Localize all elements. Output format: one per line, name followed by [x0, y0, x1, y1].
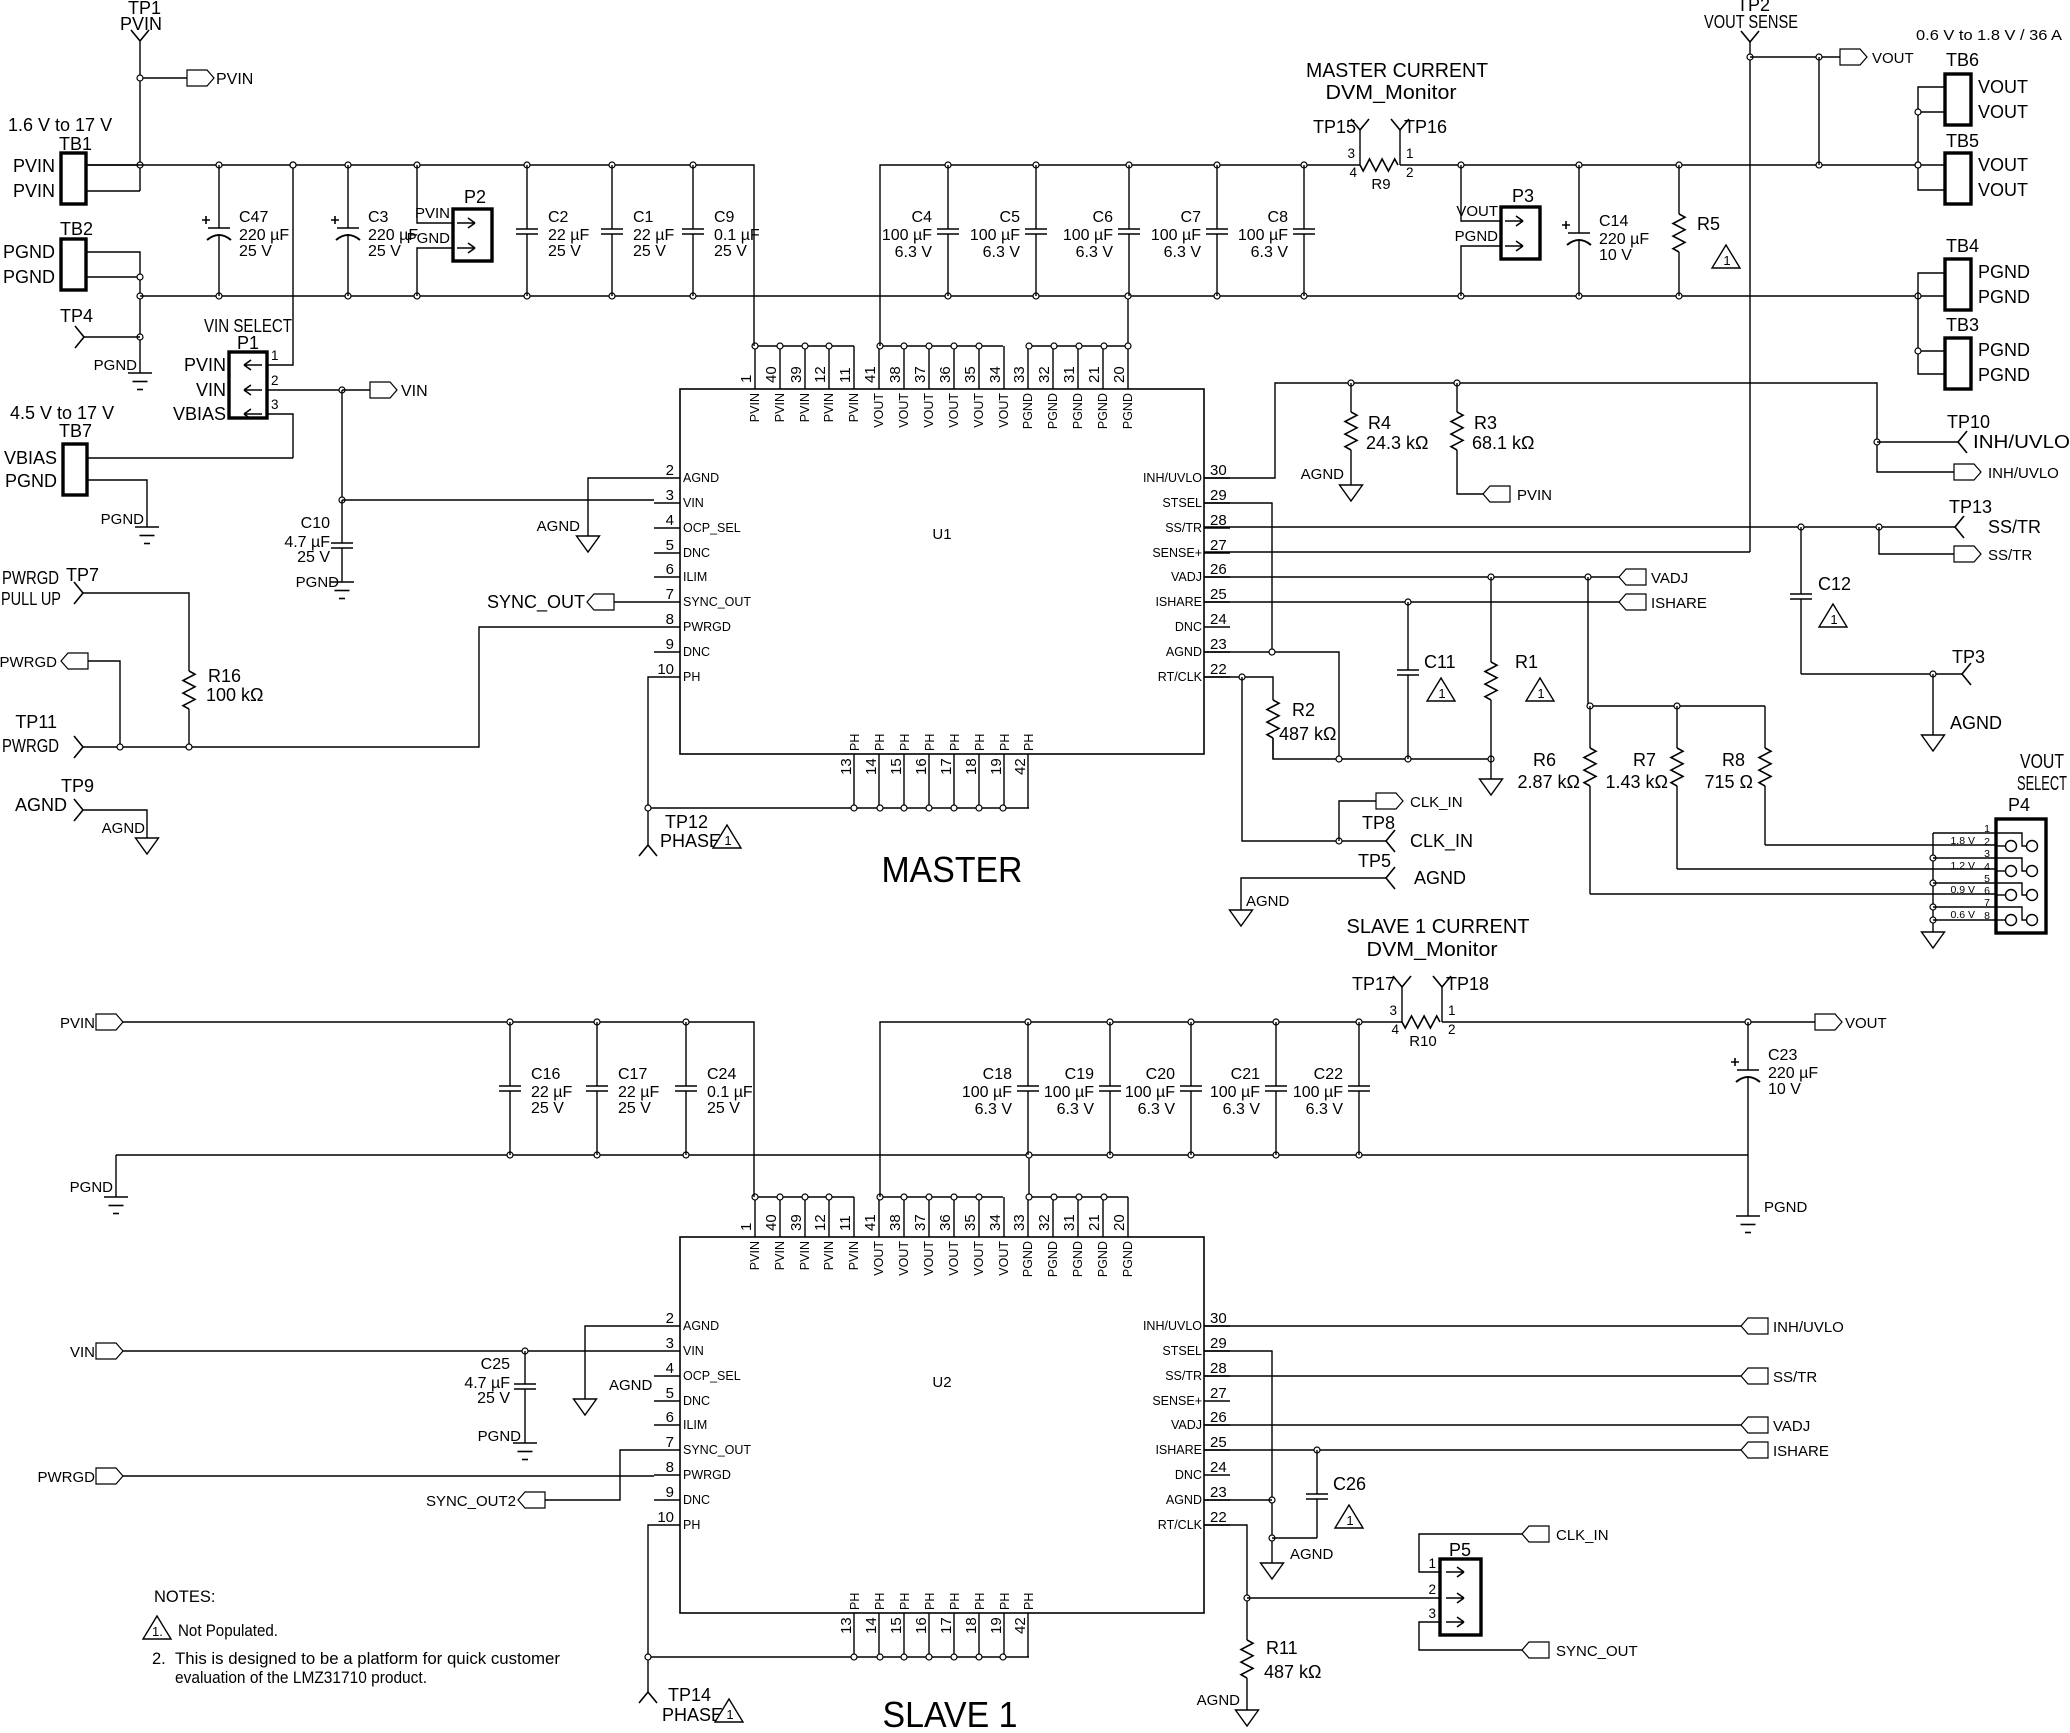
- U1 pin 34 VOUT: [1003, 346, 1005, 389]
- svg-text:29: 29: [1210, 487, 1227, 504]
- svg-text:25 V: 25 V: [707, 1100, 740, 1117]
- svg-text:41: 41: [862, 366, 879, 383]
- svg-text:1.43 kΩ: 1.43 kΩ: [1606, 772, 1669, 792]
- svg-text:C7: C7: [1181, 209, 1202, 226]
- svg-text:R11: R11: [1266, 1638, 1298, 1658]
- wire U1 VIN pin3: [342, 499, 654, 501]
- svg-text:16: 16: [913, 758, 930, 775]
- svg-text:22 µF: 22 µF: [548, 227, 589, 244]
- svg-text:VOUT: VOUT: [872, 393, 886, 428]
- svg-text:487 kΩ: 487 kΩ: [1279, 724, 1337, 744]
- wire P4 pin8 from ground bus: [1933, 919, 1996, 921]
- svg-text:2: 2: [1406, 165, 1414, 180]
- svg-text:VADJ: VADJ: [1773, 1418, 1810, 1435]
- svg-text:PH: PH: [1022, 1593, 1036, 1610]
- svg-text:1: 1: [271, 348, 279, 363]
- svg-text:U1: U1: [932, 526, 951, 543]
- svg-text:39: 39: [788, 1214, 805, 1231]
- svg-text:PGND: PGND: [407, 230, 451, 247]
- U2 pin 13 PH: [853, 1613, 855, 1657]
- wire VOUT pin bus (U1): [880, 345, 1003, 347]
- wire VADJ (slave): [1204, 1424, 1741, 1426]
- svg-text:MASTER: MASTER: [882, 849, 1023, 890]
- wire TB7 PGND: [87, 480, 147, 527]
- svg-text:0.6 V to 1.8 V / 36 A: 0.6 V to 1.8 V / 36 A: [1916, 27, 2062, 44]
- svg-text:VOUT: VOUT: [972, 393, 986, 428]
- svg-text:AGND: AGND: [1290, 1546, 1334, 1563]
- resistor R6: [1589, 706, 1591, 748]
- U2 pin 33 PGND: [1027, 1197, 1029, 1237]
- capacitor C17: [596, 1022, 598, 1086]
- svg-text:19: 19: [988, 1617, 1005, 1634]
- capacitor C7: [1216, 165, 1218, 229]
- svg-text:22: 22: [1210, 1509, 1227, 1526]
- U2 pin 15 PH: [903, 1613, 905, 1657]
- U2 pin 5 DNC: [654, 1400, 680, 1402]
- svg-text:TB4: TB4: [1946, 236, 1979, 256]
- svg-text:PH: PH: [998, 734, 1012, 751]
- capacitor C21: [1275, 1022, 1277, 1086]
- svg-text:6.3 V: 6.3 V: [1164, 244, 1202, 261]
- U2 pin 23 AGND: [1204, 1499, 1230, 1501]
- svg-text:25: 25: [1210, 586, 1227, 603]
- capacitor C14: [1578, 165, 1580, 233]
- U1 pin 16 PH: [928, 754, 930, 808]
- wire SS/TR net: [1204, 526, 1955, 528]
- svg-text:PGND: PGND: [1978, 365, 2030, 385]
- svg-text:PGND: PGND: [1121, 1241, 1135, 1277]
- resistor R4: [1350, 383, 1352, 412]
- svg-text:TP4: TP4: [60, 306, 93, 326]
- svg-text:40: 40: [763, 1214, 780, 1231]
- svg-text:VOUT: VOUT: [2020, 750, 2064, 773]
- svg-text:9: 9: [666, 1484, 674, 1501]
- svg-text:PWRGD: PWRGD: [38, 1469, 96, 1486]
- svg-text:PVIN: PVIN: [847, 1241, 861, 1270]
- wire P3 PGND: [1461, 246, 1501, 296]
- wire C12 to TP3: [1801, 673, 1962, 675]
- svg-text:OCP_SEL: OCP_SEL: [683, 1369, 741, 1383]
- svg-text:31: 31: [1061, 1214, 1078, 1231]
- svg-text:1: 1: [1406, 146, 1414, 161]
- svg-text:24: 24: [1210, 611, 1227, 628]
- test point TP10 INH/UVLO: [1877, 441, 1958, 443]
- U2 pin 34 VOUT: [1003, 1197, 1005, 1237]
- svg-text:DNC: DNC: [683, 645, 710, 659]
- svg-text:1: 1: [1438, 686, 1445, 701]
- wire R7 to P4 pin4: [1677, 868, 1996, 870]
- wire CLK_IN net: [1242, 677, 1386, 841]
- svg-text:PVIN: PVIN: [120, 14, 162, 34]
- svg-text:100 µF: 100 µF: [1151, 227, 1201, 244]
- svg-text:220 µF: 220 µF: [1768, 1065, 1818, 1082]
- svg-text:SYNC_OUT: SYNC_OUT: [1556, 1643, 1638, 1660]
- svg-text:26: 26: [1210, 1409, 1227, 1426]
- svg-text:3: 3: [1984, 848, 1990, 860]
- svg-text:CLK_IN: CLK_IN: [1410, 794, 1463, 811]
- U2 pin 42 PH: [1027, 1613, 1029, 1657]
- svg-text:CLK_IN: CLK_IN: [1410, 831, 1473, 852]
- svg-text:SS/TR: SS/TR: [1165, 1369, 1202, 1383]
- net flag CLK_IN: [1339, 801, 1376, 841]
- test point TP8 CLK_IN: [1386, 830, 1395, 852]
- svg-text:35: 35: [962, 366, 979, 383]
- svg-text:AGND: AGND: [683, 1319, 719, 1333]
- svg-text:VIN: VIN: [70, 1344, 95, 1361]
- svg-text:PGND: PGND: [101, 511, 145, 528]
- net flag VOUT (top right): [1750, 56, 1840, 58]
- svg-text:PVIN: PVIN: [13, 156, 55, 176]
- svg-text:1: 1: [1428, 1556, 1436, 1571]
- U2 pin 36 VOUT: [953, 1197, 955, 1237]
- svg-text:C4: C4: [912, 209, 933, 226]
- U2 pin 16 PH: [928, 1613, 930, 1657]
- svg-text:C26: C26: [1333, 1474, 1366, 1494]
- svg-text:SS/TR: SS/TR: [1988, 517, 2041, 537]
- svg-text:VOUT: VOUT: [922, 393, 936, 428]
- svg-text:100 µF: 100 µF: [1293, 1084, 1343, 1101]
- wire P2 PVIN: [417, 165, 453, 223]
- U1 pin 40 PVIN: [779, 346, 781, 389]
- wire PVIN pin bus (U1): [754, 345, 854, 347]
- svg-text:C16: C16: [531, 1066, 560, 1083]
- svg-text:68.1 kΩ: 68.1 kΩ: [1472, 433, 1535, 453]
- svg-text:VBIAS: VBIAS: [4, 448, 57, 468]
- net flag SYNC_OUT (slave): [1522, 1642, 1549, 1658]
- U2 pin 37 VOUT: [928, 1197, 930, 1237]
- wire SENSE net: [1204, 551, 1750, 553]
- resistor R8: [1764, 706, 1766, 748]
- U1 pin 21 PGND: [1102, 346, 1104, 389]
- U1 pin 22 RT/CLK: [1204, 676, 1230, 678]
- wire PH bus (U2): [648, 1525, 654, 1692]
- svg-text:34: 34: [987, 1214, 1004, 1231]
- wire U2 AGND pin2: [585, 1326, 654, 1399]
- svg-text:4: 4: [1984, 861, 1990, 873]
- svg-text:1.6 V to 17 V: 1.6 V to 17 V: [8, 115, 112, 135]
- svg-text:100 µF: 100 µF: [962, 1084, 1012, 1101]
- svg-text:7: 7: [1984, 897, 1990, 909]
- svg-text:ILIM: ILIM: [683, 570, 707, 584]
- svg-text:AGND: AGND: [15, 795, 67, 815]
- svg-text:25 V: 25 V: [531, 1100, 564, 1117]
- svg-text:R3: R3: [1474, 413, 1497, 433]
- wire PGND rail: [140, 295, 1945, 297]
- svg-text:25 V: 25 V: [297, 549, 330, 566]
- U1 pin 7 SYNC_OUT: [654, 601, 680, 603]
- P4 pin 6: [1996, 894, 2006, 896]
- svg-text:DNC: DNC: [683, 546, 710, 560]
- svg-text:24.3 kΩ: 24.3 kΩ: [1366, 433, 1429, 453]
- svg-text:20: 20: [1111, 1214, 1128, 1231]
- svg-text:37: 37: [912, 366, 929, 383]
- capacitor C1: [611, 165, 613, 229]
- net flag CLK_IN (slave): [1522, 1526, 1549, 1542]
- svg-text:PH: PH: [973, 734, 987, 751]
- svg-text:VOUT: VOUT: [872, 1241, 886, 1276]
- svg-text:AGND: AGND: [1166, 1493, 1202, 1507]
- svg-text:1: 1: [1537, 686, 1544, 701]
- U2 pin 24 DNC: [1204, 1474, 1230, 1476]
- svg-text:TP17: TP17: [1352, 974, 1395, 994]
- U2 pin 7 SYNC_OUT: [654, 1449, 680, 1451]
- svg-text:VOUT: VOUT: [1978, 77, 2028, 97]
- svg-text:INH/UVLO: INH/UVLO: [1773, 1319, 1844, 1336]
- svg-text:OCP_SEL: OCP_SEL: [683, 521, 741, 535]
- svg-text:35: 35: [962, 1214, 979, 1231]
- svg-text:VIN: VIN: [683, 496, 704, 510]
- ground AGND (bus): [1490, 759, 1492, 779]
- svg-text:0.1 µF: 0.1 µF: [714, 227, 760, 244]
- svg-text:1.: 1.: [152, 1624, 163, 1639]
- svg-text:SLAVE 1 CURRENT: SLAVE 1 CURRENT: [1347, 915, 1530, 938]
- wire PGND rail (slave): [116, 1154, 1748, 1156]
- svg-text:VOUT: VOUT: [997, 393, 1011, 428]
- svg-text:100 µF: 100 µF: [1238, 227, 1288, 244]
- wire U1 AGND pin2: [588, 478, 654, 536]
- svg-text:26: 26: [1210, 561, 1227, 578]
- svg-text:487 kΩ: 487 kΩ: [1264, 1662, 1322, 1682]
- P4 pin 2: [1996, 845, 2006, 847]
- svg-text:TB3: TB3: [1946, 315, 1979, 335]
- svg-text:C1: C1: [633, 209, 654, 226]
- U2 pin 8 PWRGD: [654, 1474, 680, 1476]
- U1 pin 39 PVIN: [804, 346, 806, 389]
- svg-text:PVIN: PVIN: [798, 393, 812, 422]
- svg-text:SS/TR: SS/TR: [1773, 1369, 1817, 1386]
- svg-text:PGND: PGND: [1764, 1199, 1808, 1216]
- svg-text:25 V: 25 V: [618, 1100, 651, 1117]
- capacitor C47: [218, 165, 220, 228]
- svg-text:PGND: PGND: [1121, 393, 1135, 429]
- svg-text:TP7: TP7: [66, 565, 99, 585]
- U2 pin 12 PVIN: [828, 1197, 830, 1237]
- P4 pin 4: [1996, 870, 2006, 872]
- net flag INH/UVLO: [1954, 464, 1981, 480]
- svg-text:6.3 V: 6.3 V: [1306, 1101, 1344, 1118]
- wire STSEL net (slave): [1204, 1351, 1272, 1563]
- svg-text:6: 6: [1984, 885, 1990, 897]
- U1 pin 13 PH: [853, 754, 855, 808]
- svg-text:PGND: PGND: [1021, 393, 1035, 429]
- ground PGND (C23): [1747, 1155, 1749, 1216]
- svg-text:25 V: 25 V: [239, 243, 272, 260]
- svg-text:PH: PH: [898, 734, 912, 751]
- svg-text:PH: PH: [923, 734, 937, 751]
- svg-text:7: 7: [666, 586, 674, 603]
- svg-text:39: 39: [788, 366, 805, 383]
- svg-text:U2: U2: [932, 1374, 951, 1391]
- svg-text:NOTES:: NOTES:: [154, 1588, 215, 1606]
- svg-text:R16: R16: [208, 666, 241, 686]
- svg-text:TB2: TB2: [60, 219, 93, 239]
- svg-text:VOUT: VOUT: [1978, 155, 2028, 175]
- svg-text:VADJ: VADJ: [1651, 570, 1688, 587]
- svg-text:6: 6: [666, 561, 674, 578]
- net flag VOUT (slave): [1815, 1014, 1842, 1030]
- svg-text:C12: C12: [1818, 574, 1851, 594]
- svg-text:TP13: TP13: [1949, 497, 1992, 517]
- svg-text:PVIN: PVIN: [60, 1015, 95, 1032]
- net flag VIN: [342, 389, 370, 391]
- svg-text:INH/UVLO: INH/UVLO: [1988, 465, 2059, 482]
- svg-text:33: 33: [1011, 366, 1028, 383]
- resistor R7: [1676, 706, 1678, 748]
- svg-text:VOUT: VOUT: [897, 1241, 911, 1276]
- svg-text:13: 13: [838, 758, 855, 775]
- U1 pin 18 PH: [978, 754, 980, 808]
- svg-text:This is designed to be a platf: This is designed to be a platform for qu…: [175, 1650, 561, 1668]
- net flag VADJ: [1619, 569, 1646, 585]
- svg-text:2: 2: [1984, 836, 1990, 848]
- svg-text:TP14: TP14: [668, 1685, 711, 1705]
- svg-text:1: 1: [724, 833, 731, 848]
- svg-text:18: 18: [963, 1617, 980, 1634]
- svg-text:4: 4: [666, 512, 674, 529]
- svg-text:VOUT: VOUT: [922, 1241, 936, 1276]
- svg-text:PVIN: PVIN: [748, 1241, 762, 1270]
- svg-text:SYNC_OUT2: SYNC_OUT2: [426, 1493, 516, 1510]
- svg-text:22 µF: 22 µF: [633, 227, 674, 244]
- U2 pin 11 PVIN: [853, 1197, 855, 1237]
- svg-text:27: 27: [1210, 1385, 1227, 1402]
- U1 pin 14 PH: [878, 754, 880, 808]
- svg-text:1: 1: [738, 375, 755, 383]
- svg-text:R5: R5: [1697, 214, 1720, 234]
- svg-text:23: 23: [1210, 636, 1227, 653]
- svg-text:100 µF: 100 µF: [1044, 1084, 1094, 1101]
- resistor R16: [188, 669, 190, 671]
- svg-text:3: 3: [1428, 1606, 1436, 1621]
- wire R6 to P4 pin6: [1590, 893, 1996, 895]
- svg-text:220 µF: 220 µF: [239, 227, 289, 244]
- U1 pin 37 VOUT: [928, 346, 930, 389]
- svg-text:18: 18: [963, 758, 980, 775]
- svg-text:PGND: PGND: [1978, 262, 2030, 282]
- svg-text:C21: C21: [1231, 1066, 1260, 1083]
- svg-text:R1: R1: [1515, 652, 1538, 672]
- svg-text:SLAVE 1: SLAVE 1: [883, 1694, 1018, 1733]
- svg-text:TP3: TP3: [1952, 647, 1985, 667]
- svg-text:3: 3: [666, 1335, 674, 1352]
- U1 pin 28 SS/TR: [1204, 527, 1230, 529]
- svg-text:PGND: PGND: [1071, 393, 1085, 429]
- svg-text:SYNC_OUT: SYNC_OUT: [487, 592, 585, 613]
- svg-text:ISHARE: ISHARE: [1651, 595, 1707, 612]
- wire P4 ground bus: [1932, 833, 1934, 932]
- svg-text:C23: C23: [1768, 1047, 1797, 1064]
- U1 pin 20 PGND: [1127, 346, 1129, 389]
- svg-text:R7: R7: [1633, 750, 1656, 770]
- svg-text:10 V: 10 V: [1599, 247, 1632, 264]
- svg-text:PGND: PGND: [94, 357, 138, 374]
- svg-text:5: 5: [666, 537, 674, 554]
- svg-text:1: 1: [1830, 612, 1837, 627]
- wire VADJ net: [1204, 576, 1619, 578]
- wire P1 pin2 VIN: [267, 389, 342, 391]
- capacitor C4: [947, 165, 949, 229]
- svg-text:21: 21: [1086, 1214, 1103, 1231]
- svg-text:VIN: VIN: [683, 1344, 704, 1358]
- wire TB2 pin1: [86, 252, 140, 373]
- svg-text:RT/CLK: RT/CLK: [1158, 670, 1203, 684]
- svg-text:AGND: AGND: [1950, 713, 2002, 733]
- svg-text:SYNC_OUT: SYNC_OUT: [683, 595, 751, 609]
- svg-text:VIN: VIN: [196, 380, 226, 400]
- svg-text:INH/UVLO: INH/UVLO: [1143, 1319, 1202, 1333]
- svg-text:100 kΩ: 100 kΩ: [206, 685, 264, 705]
- svg-text:3: 3: [1389, 1003, 1397, 1018]
- U1 pin 11 PVIN: [853, 346, 855, 389]
- svg-text:40: 40: [763, 366, 780, 383]
- resistor R2: [1272, 699, 1274, 701]
- svg-text:C2: C2: [548, 209, 569, 226]
- svg-text:6.3 V: 6.3 V: [983, 244, 1021, 261]
- svg-text:PVIN: PVIN: [798, 1241, 812, 1270]
- svg-text:evaluation of the LMZ31710 pro: evaluation of the LMZ31710 product.: [175, 1669, 427, 1687]
- svg-text:4.5 V to 17 V: 4.5 V to 17 V: [10, 403, 114, 423]
- wire R8 to P4 pin2: [1765, 844, 1996, 846]
- U1 pin 38 VOUT: [903, 346, 905, 389]
- wire STSEL net: [1204, 503, 1272, 652]
- svg-text:R4: R4: [1368, 413, 1391, 433]
- wire AGND pin23 (slave): [1204, 1499, 1272, 1501]
- wire INH/UVLO (slave): [1204, 1325, 1741, 1327]
- U2 pin 10 PH: [654, 1524, 680, 1526]
- svg-text:PH: PH: [948, 1593, 962, 1610]
- resistor R9 (current monitor shunt): [1360, 159, 1398, 171]
- U2 pin 21 PGND: [1102, 1197, 1104, 1237]
- svg-text:DVM_Monitor: DVM_Monitor: [1367, 938, 1498, 961]
- U2 pin 41 VOUT: [878, 1197, 880, 1237]
- U2 pin 18 PH: [978, 1613, 980, 1657]
- wire VOUT rail (slave) left segment: [880, 1022, 1402, 1197]
- svg-text:12: 12: [812, 1214, 829, 1231]
- U2 pin 31 PGND: [1077, 1197, 1079, 1237]
- svg-text:TP18: TP18: [1446, 974, 1489, 994]
- svg-text:SYNC_OUT: SYNC_OUT: [683, 1443, 751, 1457]
- svg-text:42: 42: [1012, 1617, 1029, 1634]
- svg-text:TP16: TP16: [1404, 117, 1447, 137]
- svg-text:PGND: PGND: [70, 1179, 114, 1196]
- wire INH/UVLO net: [1204, 383, 1954, 478]
- net flag SS/TR (slave): [1741, 1368, 1768, 1384]
- svg-text:SS/TR: SS/TR: [1165, 521, 1202, 535]
- svg-text:VOUT: VOUT: [972, 1241, 986, 1276]
- svg-text:100 µF: 100 µF: [1210, 1084, 1260, 1101]
- svg-text:PH: PH: [923, 1593, 937, 1610]
- wire P1 pin3 VBIAS: [267, 414, 293, 458]
- P4 pin 8: [1996, 919, 2006, 921]
- wire VIN net vertical: [341, 390, 343, 500]
- svg-text:6.3 V: 6.3 V: [895, 244, 933, 261]
- wire P2 PGND: [417, 248, 453, 296]
- svg-text:4: 4: [1349, 165, 1357, 180]
- svg-text:TB7: TB7: [59, 421, 92, 441]
- wire ISHARE (slave): [1204, 1449, 1741, 1451]
- net flag ISHARE: [1619, 594, 1646, 610]
- test point TP14 PHASE: [639, 1692, 657, 1703]
- svg-text:C11: C11: [1424, 652, 1456, 672]
- svg-text:23: 23: [1210, 1484, 1227, 1501]
- wire PWRGD net: [83, 627, 654, 747]
- ground AGND (TP3): [1932, 674, 1934, 735]
- net flag INH/UVLO (slave): [1741, 1318, 1768, 1334]
- svg-text:PVIN: PVIN: [822, 393, 836, 422]
- svg-text:14: 14: [863, 1617, 880, 1634]
- U1 pin 9 DNC: [654, 651, 680, 653]
- svg-text:TP10: TP10: [1947, 412, 1990, 432]
